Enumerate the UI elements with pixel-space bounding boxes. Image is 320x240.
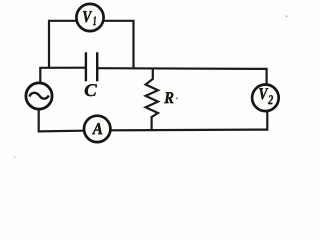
- wire V1 left branch: [49, 21, 77, 69]
- wire top left to source: [40, 68, 86, 84]
- wire top right: [97, 68, 267, 85]
- voltmeter V2: [252, 85, 279, 112]
- speck: [286, 15, 288, 17]
- voltmeter V1: [76, 4, 103, 31]
- R dot: [176, 97, 178, 99]
- resistor R: [146, 69, 174, 132]
- wire V1 right branch: [104, 21, 134, 69]
- speck: [14, 156, 16, 158]
- ammeter A: [84, 116, 110, 142]
- ac source: [26, 83, 52, 109]
- capacitor C: [85, 52, 97, 96]
- wire source bottom: [39, 109, 84, 131]
- wire bottom right: [111, 111, 268, 130]
